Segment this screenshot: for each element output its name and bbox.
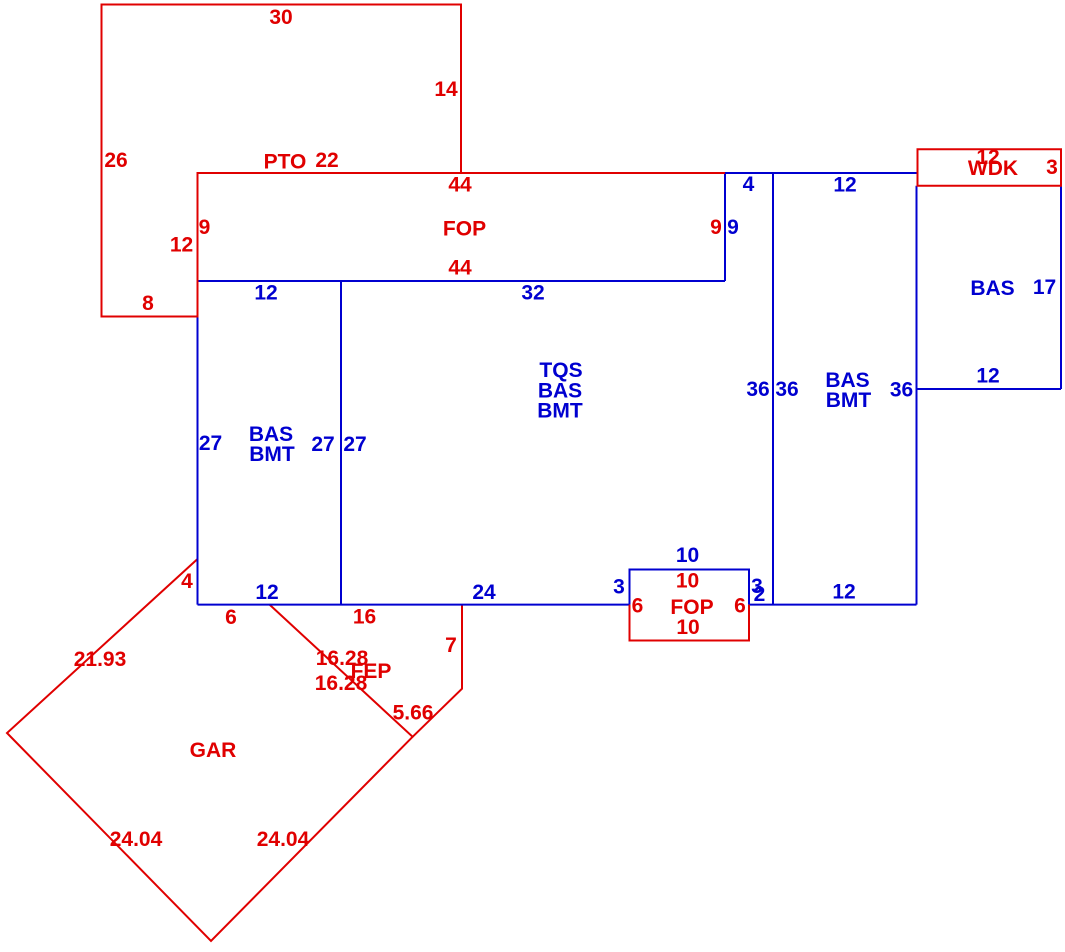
svg-text:36: 36 — [890, 379, 913, 402]
svg-text:6: 6 — [225, 606, 237, 629]
svg-text:3: 3 — [613, 576, 625, 599]
svg-text:10: 10 — [676, 570, 699, 593]
svg-text:17: 17 — [1033, 276, 1056, 299]
svg-text:BMT: BMT — [826, 389, 872, 412]
svg-text:4: 4 — [181, 570, 193, 593]
svg-text:10: 10 — [676, 544, 699, 567]
svg-text:BMT: BMT — [537, 400, 583, 423]
svg-text:9: 9 — [727, 216, 739, 239]
svg-text:26: 26 — [104, 149, 127, 172]
svg-text:24.04: 24.04 — [257, 828, 310, 851]
svg-text:24: 24 — [472, 581, 496, 604]
svg-text:FEP: FEP — [351, 660, 392, 683]
svg-text:4: 4 — [743, 173, 755, 196]
svg-text:BMT: BMT — [249, 443, 295, 466]
svg-text:WDK: WDK — [968, 157, 1018, 180]
svg-text:36: 36 — [746, 378, 769, 401]
svg-text:5.66: 5.66 — [393, 702, 434, 725]
svg-text:GAR: GAR — [190, 739, 237, 762]
svg-text:36: 36 — [775, 378, 798, 401]
svg-text:PTO: PTO — [264, 151, 307, 174]
svg-text:30: 30 — [269, 6, 292, 29]
svg-text:14: 14 — [434, 78, 458, 101]
svg-text:12: 12 — [832, 581, 855, 604]
svg-text:12: 12 — [833, 174, 856, 197]
svg-text:12: 12 — [255, 581, 278, 604]
svg-text:6: 6 — [734, 595, 746, 618]
svg-text:12: 12 — [170, 234, 193, 257]
svg-text:27: 27 — [343, 433, 366, 456]
svg-text:10: 10 — [676, 616, 699, 639]
svg-text:2: 2 — [754, 583, 766, 606]
svg-text:12: 12 — [254, 282, 277, 305]
svg-text:21.93: 21.93 — [74, 648, 127, 671]
svg-text:44: 44 — [448, 257, 472, 280]
svg-text:27: 27 — [311, 433, 334, 456]
svg-text:32: 32 — [521, 282, 544, 305]
svg-text:27: 27 — [199, 432, 222, 455]
svg-text:6: 6 — [632, 595, 644, 618]
svg-text:16: 16 — [353, 606, 376, 629]
svg-text:9: 9 — [710, 216, 722, 239]
svg-text:9: 9 — [199, 216, 211, 239]
svg-text:22: 22 — [315, 149, 338, 172]
svg-text:FOP: FOP — [443, 218, 486, 241]
svg-text:24.04: 24.04 — [110, 828, 163, 851]
svg-text:BAS: BAS — [970, 277, 1014, 300]
svg-text:44: 44 — [448, 174, 472, 197]
svg-text:8: 8 — [142, 292, 154, 315]
svg-text:12: 12 — [976, 365, 999, 388]
svg-text:7: 7 — [445, 634, 457, 657]
svg-text:3: 3 — [1046, 156, 1058, 179]
